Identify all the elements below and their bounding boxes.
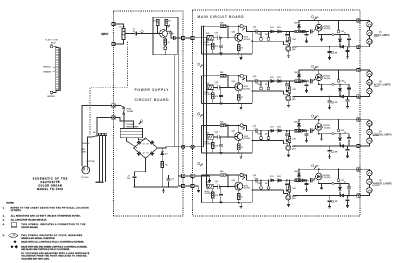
harness wires down: [100, 136, 106, 182]
bias resistor R2: [156, 19, 159, 25]
wire: R5 to ground rail: [161, 168, 163, 188]
bridge diode D2: [150, 141, 154, 145]
svg-text:NOTES:: NOTES:: [6, 203, 14, 205]
svg-text:ALL RESISTORS ARE 1/2 WATT UNL: ALL RESISTORS ARE 1/2 WATT UNLESS OTHERW…: [11, 215, 81, 218]
bridge rectifier diamond: [134, 138, 158, 158]
svg-text:117 V.A.C.: 117 V.A.C.: [81, 176, 90, 179]
voltage marker channel 3: [198, 113, 200, 115]
svg-text:D3: D3: [143, 152, 145, 154]
wire: tube bottom to terminal: [53, 91, 56, 93]
svg-text:T1 POWER: T1 POWER: [126, 124, 135, 126]
fuse connector upper: [112, 104, 115, 107]
wire: switch to plug: [88, 137, 92, 166]
channel 2 (blue) stage: [201, 65, 372, 109]
preamp cage left wire: [153, 17, 177, 55]
svg-text:ZD1: ZD1: [165, 153, 168, 155]
svg-text:PURPLE: PURPLE: [43, 67, 51, 69]
svg-text:D1: D1: [143, 144, 145, 146]
input connector lower: [112, 42, 115, 45]
wire: switch line (lower): [97, 118, 113, 136]
node: channel 1 input: [206, 37, 208, 39]
svg-text:INPUT: INPUT: [102, 34, 109, 36]
T1 voltage arrow: [139, 122, 141, 124]
Q1 voltage arrow: [168, 25, 170, 27]
wire: mid supply line into board: [194, 175, 209, 177]
svg-text:NE-51: NE-51: [51, 42, 56, 44]
svg-text:BLUE LAMPS: BLUE LAMPS: [374, 83, 391, 87]
resistor R5 below zener: [161, 155, 163, 162]
supply mid output wire: [178, 175, 191, 177]
svg-text:VOLTAGES MAY VARY ±20%.: VOLTAGES MAY VARY ±20%.: [21, 257, 50, 260]
ground connector (power board): [182, 184, 185, 187]
bridge diode D3: [137, 151, 141, 155]
wire: terminal to tube top: [53, 46, 56, 47]
junction: C4 tap: [168, 175, 170, 177]
svg-text:GLASS TUBE: GLASS TUBE: [45, 39, 59, 42]
svg-text:HEATHKIT®: HEATHKIT®: [41, 181, 60, 184]
svg-text:COLOR ORGAN: COLOR ORGAN: [38, 185, 62, 188]
filter cap C4: [168, 181, 170, 187]
svg-text:MADE WITH RED AND GREEN CONTRO: MADE WITH RED AND GREEN CONTROLS COUNTER…: [21, 245, 87, 248]
signal input bus: [206, 38, 208, 187]
svg-text:C2: C2: [171, 34, 173, 36]
svg-text:CORD: CORD: [81, 151, 87, 153]
svg-text:D2: D2: [147, 144, 149, 146]
node: channel 2 input tap: [206, 87, 208, 89]
voltage marker channel 2: [198, 63, 200, 65]
power supply circuit board dashed outline: [113, 11, 183, 216]
node: supply taps: [203, 25, 205, 27]
transistor Q1: [160, 30, 168, 38]
svg-text:VOLTMETER FROM THE POINT INDIC: VOLTMETER FROM THE POINT INDICATED TO GR…: [21, 255, 87, 258]
electrode leader lines: [53, 67, 56, 72]
volume control R1: [122, 29, 127, 40]
svg-text:UNDER A NO SIGNAL CONDITION.: UNDER A NO SIGNAL CONDITION.: [21, 237, 55, 240]
svg-text:MODEL TD-1006: MODEL TD-1006: [37, 188, 63, 191]
svg-text:REFER TO THE CHART ABOVE FOR T: REFER TO THE CHART ABOVE FOR THE PHYSICA…: [11, 206, 90, 209]
wire: fuse to transformer: [115, 115, 134, 128]
wire: input to volume control: [115, 24, 124, 44]
svg-text:R1 1M: R1 1M: [120, 26, 126, 28]
supply rail vertical B: [177, 17, 179, 176]
svg-text:SCHEMATIC OF THE: SCHEMATIC OF THE: [33, 177, 68, 180]
preamp output coupling cap C2: [166, 31, 173, 38]
voltage marker channel 4: [198, 162, 200, 164]
wire: C1 to Q1 base: [137, 33, 160, 35]
svg-text:POWER SUPPLY: POWER SUPPLY: [135, 88, 170, 92]
channel 3 (green) stage: [201, 115, 372, 159]
junction dots on ground rail: [162, 186, 164, 188]
svg-text:DC VOLTAGES ARE MEASURED WITH: DC VOLTAGES ARE MEASURED WITH A HIGH IMP…: [21, 252, 90, 255]
preamp output connector (power board): [182, 36, 185, 39]
ground (board ground entry): [197, 186, 199, 188]
bias resistor R3: [165, 19, 168, 25]
emitter test terminal: [164, 45, 166, 47]
svg-text:56: 56: [168, 42, 170, 44]
emitter resistor R4: [164, 37, 166, 39]
svg-text:AND BLUE CAM CONTROLS FULLY CL: AND BLUE CAM CONTROLS FULLY CLOCKWISE.: [21, 248, 70, 251]
filter cap C3: [133, 179, 135, 187]
svg-text:THIS SYMBOL INDICATES A CONNEC: THIS SYMBOL INDICATES A CONNECTION TO TH…: [21, 223, 86, 226]
svg-text:.05: .05: [132, 31, 134, 33]
supply output wire to main board (DC): [175, 146, 191, 148]
svg-text:GRN-BLK: GRN-BLK: [82, 143, 90, 145]
svg-text:ALL CAPACITOR VALUES ARE IN µF: ALL CAPACITOR VALUES ARE IN µF.: [11, 219, 47, 222]
wire: ground line into board: [194, 185, 198, 187]
svg-text:(BOTTOM): (BOTTOM): [87, 161, 95, 163]
mid output connector (power board): [182, 174, 185, 177]
channel 4 (amber) stage: [201, 165, 372, 209]
wire: channel 1 input from connector: [194, 37, 207, 39]
svg-text:1/2 AMP: 1/2 AMP: [127, 110, 134, 113]
ground connector (main board): [191, 184, 194, 187]
wire: C2 to output connectors: [175, 37, 191, 39]
svg-text:CIRCUIT BOARD: CIRCUIT BOARD: [135, 98, 170, 102]
glass tube body: [56, 48, 61, 91]
input connector upper: [112, 22, 115, 25]
power supply ground: [162, 189, 165, 193]
wires: bias resistors to transistor: [158, 25, 167, 33]
wire: bridge right to zener: [158, 148, 163, 151]
channel 1 (red) stage: [201, 16, 372, 60]
glass tube top terminal: [50, 45, 53, 48]
svg-text:500: 500: [127, 178, 130, 180]
legend: double diamond: [10, 245, 13, 248]
harness connector squares: [99, 133, 107, 135]
transformer secondary wires: [127, 138, 146, 148]
svg-text:ORANGE: ORANGE: [43, 71, 52, 74]
svg-text:BROWN: BROWN: [48, 96, 56, 98]
svg-text:MAIN CIRCUIT BOARD: MAIN CIRCUIT BOARD: [198, 15, 245, 19]
preamp output connector (main board): [191, 36, 194, 39]
ground rail: [134, 186, 178, 188]
circled wire marker: [141, 30, 143, 32]
harness terminal bar: [95, 182, 103, 183]
ground interconnect wire: [178, 185, 191, 187]
fuse connector lower: [112, 116, 115, 119]
wire: supply output from bridge: [162, 147, 176, 148]
svg-text:THIS SYMBOL INDICATES DC VOLTS: THIS SYMBOL INDICATES DC VOLTS, MEASURED: [21, 234, 83, 237]
preamp bias rail: [153, 16, 177, 18]
svg-text:MADE WITH ALL CONTROLS FULLY C: MADE WITH ALL CONTROLS FULLY COUNTERCLOC…: [21, 241, 84, 244]
AC line plug: [82, 166, 90, 174]
svg-text:OF PARTS.: OF PARTS.: [11, 209, 22, 212]
svg-text:AMBER LAMPS: AMBER LAMPS: [373, 181, 393, 185]
wire: fuse line to AC plug (upper): [82, 105, 113, 166]
svg-text:150: 150: [165, 165, 168, 167]
capacitor C1: [135, 31, 136, 35]
DC supply bus: [194, 26, 203, 147]
rail B top tie: [177, 17, 178, 55]
bridge diode D4: [150, 151, 154, 155]
mechanical link (dashed) volume control to on-off switch: [90, 42, 128, 135]
DC output connector (main board): [191, 145, 194, 148]
zener diode ZD1: [161, 152, 164, 155]
bridge diode D1: [137, 141, 141, 145]
transformer T1: [120, 128, 142, 137]
on-off switch: [91, 135, 98, 138]
emitter ground tie: [164, 50, 166, 55]
mid output connector (main board): [191, 174, 194, 177]
wiper wire to C1: [127, 33, 135, 35]
DC output connector (power board): [182, 145, 185, 148]
node: channel 3 input tap: [206, 136, 208, 138]
legend: single diamond: [13, 240, 16, 243]
glass tube bottom terminal: [50, 91, 53, 94]
main circuit board dashed outline: [193, 10, 361, 216]
fuse F1: [115, 105, 124, 107]
supply rail vertical A: [174, 55, 176, 147]
svg-text:+C3: +C3: [127, 175, 130, 177]
ground (mid supply): [209, 176, 211, 179]
svg-text:CIRCUIT BOARD.: CIRCUIT BOARD.: [21, 226, 38, 229]
